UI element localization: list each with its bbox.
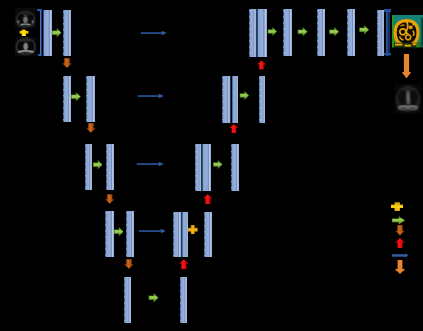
bar E2: [180, 277, 188, 323]
concat group L1: [249, 9, 258, 57]
up-conv red arrow L5->L4: [179, 259, 189, 270]
bar L1-dec-c: [317, 9, 326, 56]
up-conv red arrow L2->L1: [257, 60, 266, 70]
legend skip arrow (blue): [392, 253, 409, 258]
plus (input concat): [19, 29, 29, 37]
bar L1-dec-d: [347, 9, 355, 56]
bar B1: [63, 76, 71, 122]
pool arrow L4->L5: [124, 259, 134, 269]
bar L1-dec-e: [377, 10, 384, 57]
legend plus: [391, 202, 403, 212]
pool arrow L2->L3: [86, 123, 96, 133]
conv green arrow L1: [52, 28, 62, 37]
concat group L2: [222, 76, 231, 122]
conv green arrow L3-dec: [213, 160, 223, 169]
skip arrow L3: [136, 160, 164, 168]
conv green arrow L3: [93, 160, 103, 169]
concat plus L4 (gold): [188, 225, 198, 235]
skip arrow L1: [140, 29, 167, 37]
bar L2-dec: [259, 76, 265, 122]
pool arrow L1->L2 (dark orange down): [62, 58, 72, 68]
bar L4-dec: [204, 212, 212, 257]
input CT image 2: [15, 37, 37, 56]
bar L3-dec: [231, 144, 239, 191]
conv green arrow L2-dec: [239, 91, 250, 100]
concat group L3: [195, 144, 202, 191]
conv green arrow L5: [148, 293, 159, 303]
concat group L4: [173, 212, 183, 257]
output CT image: [394, 84, 422, 114]
conv green arrow L1-dec-a: [267, 27, 278, 36]
pool arrow L3->L4: [105, 194, 115, 204]
conv green arrow L1-dec-d: [358, 25, 370, 35]
skip arrow L4: [138, 227, 166, 235]
bar C1: [85, 144, 93, 190]
legend pool arrow (dark orange): [395, 225, 405, 236]
output arrow (orange down): [402, 54, 411, 79]
legend output arrow (light orange): [395, 260, 405, 274]
bar D2: [126, 211, 134, 257]
segmentation output image: [392, 15, 423, 47]
conv green arrow L1-dec-b: [297, 27, 308, 37]
conv green arrow L1-dec-c: [328, 27, 340, 37]
conv green arrow L2: [71, 92, 81, 101]
bar C2: [106, 144, 115, 190]
bar A1: [43, 10, 52, 57]
conv green arrow L4: [114, 227, 124, 236]
input layer bracket: [40, 9, 43, 56]
bar A2: [63, 10, 72, 57]
output layer bracket: [386, 9, 390, 56]
skip arrow L2: [137, 92, 164, 100]
bar D1: [105, 211, 113, 257]
legend up-conv arrow (red): [395, 238, 405, 249]
bar L1-dec-b: [283, 9, 293, 56]
bar E1: [124, 277, 132, 323]
input CT image 1: [15, 8, 36, 28]
legend conv arrow (green): [392, 216, 405, 225]
up-conv red arrow L4->L3: [203, 194, 213, 204]
bar B2: [86, 76, 95, 122]
up-conv red arrow L3->L2: [229, 124, 239, 133]
